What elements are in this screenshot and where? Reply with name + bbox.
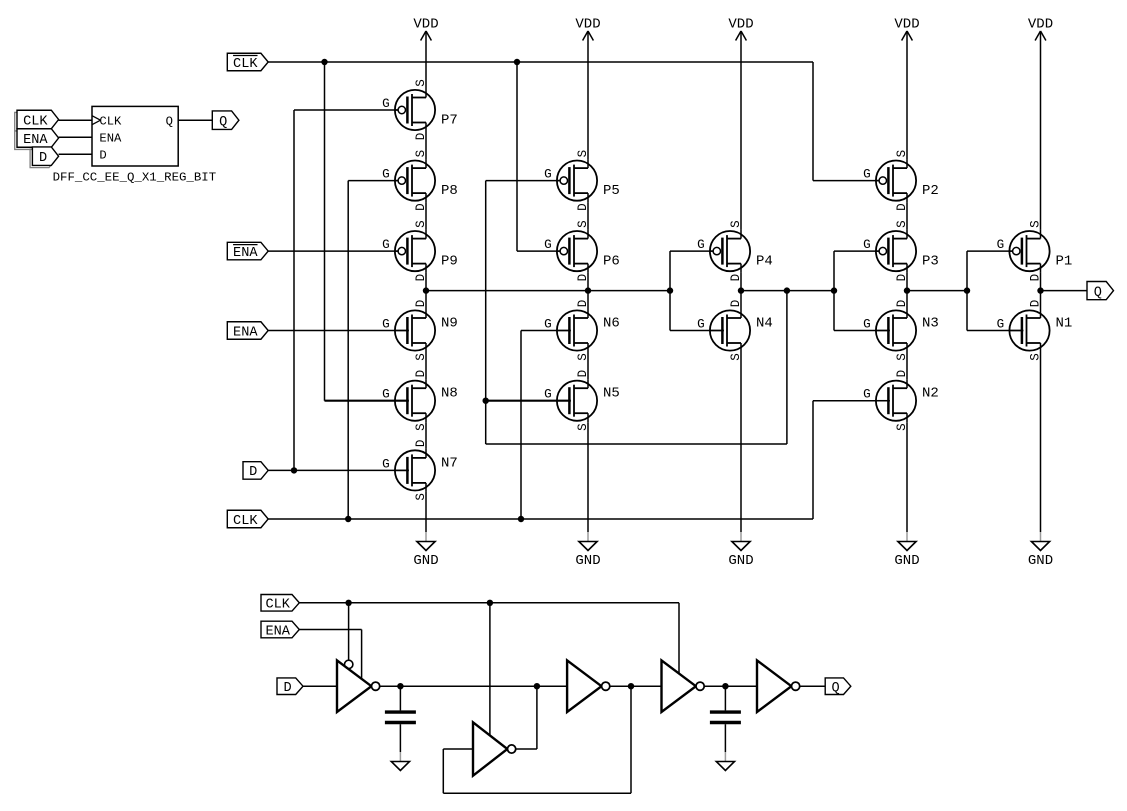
svg-text:D: D xyxy=(249,465,257,480)
svg-text:DFF_CC_EE_Q_X1_REG_BIT: DFF_CC_EE_Q_X1_REG_BIT xyxy=(53,171,217,185)
svg-text:P8: P8 xyxy=(441,183,458,199)
svg-text:G: G xyxy=(997,238,1005,252)
svg-text:Q: Q xyxy=(219,115,227,130)
U1 enable bubble xyxy=(345,660,353,668)
svg-text:GND: GND xyxy=(413,553,438,569)
svg-text:ENA: ENA xyxy=(265,624,290,639)
wire P5 gate xyxy=(486,180,560,182)
svg-text:P1: P1 xyxy=(1056,254,1073,270)
transistor P3 (PMOS) xyxy=(863,220,939,281)
wire D to U1 xyxy=(303,685,337,687)
wire P7 gate xyxy=(294,109,398,111)
svg-text:ENA: ENA xyxy=(99,132,122,146)
svg-text:VDD: VDD xyxy=(413,17,438,33)
wire net ~CLK down to P2 gate xyxy=(812,62,814,181)
junction node B at P3/N3 gates xyxy=(831,287,837,293)
transistor N4 (NMOS) xyxy=(697,300,773,361)
port ENA input (behavioural) xyxy=(261,621,299,639)
svg-text:GND: GND xyxy=(728,553,753,569)
wire column x=588 xyxy=(587,202,589,230)
transistor P7 (PMOS) xyxy=(382,79,458,140)
wire column x=426 xyxy=(425,273,427,309)
wire column x=426 xyxy=(425,422,427,449)
transistor P1 (PMOS) xyxy=(997,220,1073,281)
wire U4 out to C2/U5 xyxy=(704,685,757,687)
wire block D pin xyxy=(59,153,92,155)
svg-text:CLK: CLK xyxy=(265,598,290,613)
transistor P4 (PMOS) xyxy=(697,220,773,281)
capacitor C1 xyxy=(385,686,416,752)
junction node B feedback branch xyxy=(784,287,790,293)
wire U1 out to U2 xyxy=(380,685,567,687)
junction CLK / P8 branch xyxy=(345,516,351,522)
wire N9 gate xyxy=(268,330,409,332)
svg-text:GND: GND xyxy=(575,553,600,569)
svg-text:G: G xyxy=(697,238,705,252)
wire P3/N3 gate vertical xyxy=(833,251,835,330)
wire P3 gate xyxy=(834,250,879,252)
svg-text:VDD: VDD xyxy=(728,17,753,33)
svg-text:P3: P3 xyxy=(922,254,939,270)
transistor N9 (NMOS) xyxy=(382,300,458,361)
wire column x=426 xyxy=(425,492,427,532)
wire block ENA pin xyxy=(59,136,92,138)
power VDD symbol (x=907) xyxy=(894,17,919,41)
svg-text:N9: N9 xyxy=(441,316,458,332)
svg-text:VDD: VDD xyxy=(894,17,919,33)
transistor P5 (PMOS) xyxy=(544,150,620,211)
svg-text:P2: P2 xyxy=(922,183,939,199)
svg-text:Q: Q xyxy=(831,681,839,696)
wire N1 gate xyxy=(967,330,1023,332)
inverter U2 xyxy=(567,660,610,712)
output inverter U5 xyxy=(757,660,800,712)
svg-text:CLK: CLK xyxy=(233,57,258,72)
wire net C horizontal xyxy=(907,290,967,292)
svg-text:GND: GND xyxy=(1028,553,1053,569)
svg-text:D: D xyxy=(39,151,47,166)
power GND symbol (x=588) xyxy=(575,532,600,569)
wire ENA down to U1 xyxy=(361,630,363,678)
wire N6 gate xyxy=(521,330,571,332)
transistor P8 (PMOS) xyxy=(382,150,458,211)
wire U2 out to U4 xyxy=(610,685,662,687)
wire ~CLK to N8 gate vertical xyxy=(324,62,326,401)
junction node S2 (cap C2) xyxy=(722,683,728,689)
junction node A at bracket xyxy=(667,287,673,293)
wire CLK horizontal xyxy=(299,602,679,604)
junction ~CLK / N8 branch xyxy=(321,59,327,65)
svg-text:P6: P6 xyxy=(603,254,620,270)
port Q (block output) xyxy=(212,111,239,130)
svg-text:GND: GND xyxy=(894,553,919,569)
transistor N7 (NMOS) xyxy=(382,440,458,501)
svg-text:CLK: CLK xyxy=(99,115,122,129)
power GND symbol (x=426) xyxy=(413,532,438,569)
wire column x=907 xyxy=(906,202,908,230)
svg-text:P5: P5 xyxy=(603,183,620,199)
svg-text:D: D xyxy=(99,149,106,163)
wire CLK down to U1 bubble xyxy=(348,603,350,660)
wire P6 gate xyxy=(517,250,560,252)
junction node A at col1 xyxy=(423,287,429,293)
wire D to P7 gate vertical xyxy=(293,110,295,470)
wire column x=907 xyxy=(906,422,908,532)
transistor N2 (NMOS) xyxy=(863,370,939,431)
port ENA (block input) xyxy=(15,129,59,150)
wire feedback up xyxy=(442,749,444,793)
svg-text:G: G xyxy=(544,318,552,332)
wire N2 gate xyxy=(813,400,890,402)
svg-text:G: G xyxy=(382,457,390,471)
wire net A horizontal xyxy=(426,290,670,292)
port ~ENA input xyxy=(227,242,268,261)
tri-state buffer U1 xyxy=(337,660,380,712)
wire column x=907 xyxy=(906,31,908,159)
svg-text:G: G xyxy=(697,318,705,332)
wire column x=588 xyxy=(587,352,589,379)
wire column x=1040.5 xyxy=(1040,273,1042,309)
port D input xyxy=(243,462,268,481)
svg-text:N8: N8 xyxy=(441,386,458,402)
port Q output (behavioural) xyxy=(825,678,851,696)
wire CLK to N6 gate vertical xyxy=(520,331,522,520)
svg-text:G: G xyxy=(863,168,871,182)
wire feedback up to P5 gate xyxy=(485,181,487,444)
svg-text:G: G xyxy=(544,238,552,252)
port ENA input xyxy=(227,322,268,341)
wire column x=907 xyxy=(906,352,908,379)
svg-text:Q: Q xyxy=(166,115,173,129)
svg-text:G: G xyxy=(863,388,871,402)
svg-text:G: G xyxy=(544,168,552,182)
junction node S / feedback xyxy=(628,683,634,689)
wire N7 gate xyxy=(268,469,409,471)
svg-text:N5: N5 xyxy=(603,386,620,402)
wire CLK down to U3 xyxy=(489,603,491,736)
wire column x=426 xyxy=(425,31,427,89)
junction feedback / N5 gate xyxy=(483,398,489,404)
junction node A at col2 xyxy=(585,287,591,293)
wire column x=1040.5 xyxy=(1040,31,1042,230)
power VDD symbol (x=588) xyxy=(575,17,600,41)
svg-text:N7: N7 xyxy=(441,455,458,471)
wire P8 gate xyxy=(348,180,398,182)
wire P9 gate xyxy=(268,250,398,252)
svg-text:ENA: ENA xyxy=(23,133,48,148)
power VDD symbol (x=741) xyxy=(728,17,753,41)
wire feedback across bottom xyxy=(443,792,631,794)
wire P1/N1 gate bracket xyxy=(966,251,968,330)
junction CLK / N6 branch xyxy=(518,516,524,522)
power VDD symbol (x=426) xyxy=(413,17,438,41)
svg-text:N1: N1 xyxy=(1056,316,1073,332)
wire net CLK up to N2 gate xyxy=(812,401,814,519)
svg-text:N2: N2 xyxy=(922,386,939,402)
power GND symbol (x=400.4) xyxy=(391,752,409,771)
wire column x=426 xyxy=(425,202,427,230)
svg-text:D: D xyxy=(283,681,291,696)
svg-text:G: G xyxy=(382,318,390,332)
wire P2 gate xyxy=(813,180,879,182)
wire column x=1040.5 xyxy=(1040,352,1042,532)
wire U3 input xyxy=(443,748,473,750)
svg-text:ENA: ENA xyxy=(233,325,258,340)
wire column x=588 xyxy=(587,422,589,532)
wire CLK to P8 gate vertical xyxy=(347,181,349,519)
clocked feedback inverter U3 xyxy=(473,722,516,775)
junction ~CLK / P6 branch xyxy=(514,59,520,65)
wire ~CLK to P6 gate vertical xyxy=(516,62,518,251)
port CLK (block input) xyxy=(15,110,59,131)
svg-text:CLK: CLK xyxy=(233,514,258,529)
port D input (behavioural) xyxy=(277,678,303,696)
svg-text:P4: P4 xyxy=(756,254,773,270)
wire column x=426 xyxy=(425,132,427,160)
svg-text:N6: N6 xyxy=(603,316,620,332)
wire column x=907 xyxy=(906,273,908,309)
power GND symbol (x=741) xyxy=(728,532,753,569)
wire feedback down xyxy=(786,291,788,444)
power VDD symbol (x=1040.5) xyxy=(1028,17,1053,41)
wire CLK down to U4 xyxy=(678,603,680,674)
symbol DFF_CC_EE_Q_X1_REG_BIT block xyxy=(92,106,178,166)
svg-text:CLK: CLK xyxy=(23,114,48,129)
port Q output xyxy=(1087,282,1114,301)
wire net B horizontal xyxy=(741,290,834,292)
wire column x=741 xyxy=(740,273,742,309)
wire column x=588 xyxy=(587,273,589,309)
port ~CLK input xyxy=(227,53,268,72)
svg-text:G: G xyxy=(863,318,871,332)
wire net Q xyxy=(1041,290,1088,292)
junction node B at col3 xyxy=(738,287,744,293)
wire N8 gate xyxy=(325,400,409,402)
svg-text:N3: N3 xyxy=(922,316,939,332)
wire block Q pin xyxy=(178,119,212,121)
wire N3 gate xyxy=(834,330,890,332)
capacitor C2 xyxy=(710,686,741,752)
transistor N6 (NMOS) xyxy=(544,300,620,361)
svg-text:G: G xyxy=(997,318,1005,332)
transistor P6 (PMOS) xyxy=(544,220,620,281)
junction node C at col4 xyxy=(904,287,910,293)
svg-text:G: G xyxy=(382,168,390,182)
transistor N3 (NMOS) xyxy=(863,300,939,361)
transistor N5 (NMOS) xyxy=(544,370,620,431)
power GND symbol (x=907) xyxy=(894,532,919,569)
svg-text:N4: N4 xyxy=(756,316,773,332)
svg-text:P9: P9 xyxy=(441,254,458,270)
transistor N1 (NMOS) xyxy=(997,300,1073,361)
junction node Q at col5 xyxy=(1037,287,1043,293)
svg-text:G: G xyxy=(382,97,390,111)
power GND symbol (x=1040.5) xyxy=(1028,532,1053,569)
wire feedback down from node S xyxy=(630,686,632,793)
junction CLK / U1 enable xyxy=(345,600,351,606)
svg-text:Q: Q xyxy=(1094,285,1102,300)
junction node M (cap C1) xyxy=(397,683,403,689)
wire column x=741 xyxy=(740,352,742,532)
wire column x=426 xyxy=(425,352,427,379)
wire net CLK horizontal xyxy=(268,518,813,520)
wire U3 out xyxy=(516,748,537,750)
junction CLK / U3 enable xyxy=(487,600,493,606)
svg-text:VDD: VDD xyxy=(1028,17,1053,33)
svg-text:ENA: ENA xyxy=(233,246,258,261)
clock chevron on CLK pin xyxy=(92,116,101,125)
junction D / P7 branch xyxy=(291,467,297,473)
transistor N8 (NMOS) xyxy=(382,370,458,431)
wire P4 gate xyxy=(670,250,713,252)
wire N4 gate xyxy=(670,330,724,332)
port CLK input xyxy=(227,510,268,529)
wire ENA horizontal xyxy=(299,629,361,631)
port CLK input (behavioural) xyxy=(261,595,299,613)
wire block CLK pin xyxy=(59,119,92,121)
wire P1 gate xyxy=(967,250,1013,252)
wire net ~CLK horizontal xyxy=(268,61,813,63)
wire P4/N4 gate bracket xyxy=(669,251,671,330)
svg-text:VDD: VDD xyxy=(575,17,600,33)
svg-text:G: G xyxy=(863,238,871,252)
svg-text:G: G xyxy=(382,238,390,252)
wire U5 out to Q xyxy=(800,685,826,687)
junction node M / U3 out xyxy=(534,683,540,689)
junction node C at bracket xyxy=(964,287,970,293)
power GND symbol (x=725.4) xyxy=(716,752,734,771)
port D (block input) xyxy=(30,147,58,168)
wire N5 gate xyxy=(486,400,571,402)
wire column x=588 xyxy=(587,31,589,159)
svg-text:P7: P7 xyxy=(441,113,458,129)
transistor P2 (PMOS) xyxy=(863,150,939,211)
wire U3 out up to node M xyxy=(536,686,538,749)
transistor P9 (PMOS) xyxy=(382,220,458,281)
wire column x=741 xyxy=(740,31,742,230)
clocked inverter U4 xyxy=(662,660,705,712)
wire feedback across xyxy=(486,443,787,445)
